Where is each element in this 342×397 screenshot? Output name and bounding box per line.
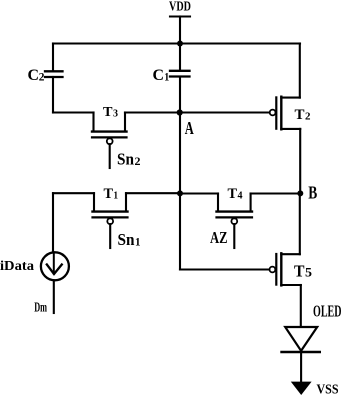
wire T5 gate horizontal (180, 268, 270, 270)
svg-text:1: 1 (135, 234, 141, 248)
label T1 (104, 186, 119, 202)
label T4 (228, 186, 244, 202)
svg-text:Dm: Dm (34, 301, 47, 316)
node junction center row (177, 190, 183, 196)
svg-text:VSS: VSS (317, 383, 339, 397)
label C2 (28, 67, 45, 84)
svg-text:1: 1 (114, 190, 119, 201)
svg-text:T: T (295, 107, 305, 123)
node A junction (177, 109, 183, 115)
wire top rail (53, 42, 300, 44)
svg-text:T: T (103, 105, 113, 120)
node junction VDD-rail (177, 41, 183, 47)
transistor T3 (92, 113, 127, 169)
transistor T5 (270, 194, 301, 327)
wire left-to-T3 (53, 111, 94, 113)
svg-text:2: 2 (305, 111, 311, 123)
wire VDD stub (179, 17, 181, 44)
capacitor C1 (170, 71, 190, 77)
wire center-to-T4 (180, 192, 218, 194)
wire center vertical lower (179, 194, 181, 270)
node B junction (297, 190, 303, 196)
svg-text:AZ: AZ (210, 228, 228, 247)
svg-text:iData: iData (0, 259, 34, 274)
svg-text:2: 2 (135, 154, 141, 168)
svg-text:OLED: OLED (313, 301, 342, 320)
label C1 (153, 67, 170, 84)
svg-text:A: A (185, 118, 194, 138)
wire center vertical upper (179, 44, 181, 71)
wire T3-to-T2gate (node A row) (125, 111, 270, 113)
wire left vertical to current source (52, 193, 54, 251)
svg-text:2: 2 (39, 71, 45, 83)
diode OLED (282, 327, 320, 352)
transistor T1 (93, 193, 128, 248)
wire T4-to-B (251, 192, 301, 194)
transistor T4 (217, 194, 253, 249)
svg-text:Sn: Sn (118, 230, 135, 249)
wire T1 left horizontal (53, 192, 94, 194)
transistor T2 (270, 44, 301, 194)
svg-text:C: C (28, 67, 40, 84)
wire center vertical mid (179, 77, 181, 194)
label T5 (294, 261, 313, 280)
wire left branch upper (52, 44, 54, 71)
svg-text:1: 1 (164, 71, 169, 83)
wire OLED-to-VSS (300, 352, 302, 382)
VSS arrow (291, 382, 312, 395)
svg-text:Sn: Sn (117, 149, 134, 168)
VDD power bar (170, 15, 190, 17)
svg-text:5: 5 (305, 265, 313, 280)
svg-text:T: T (294, 261, 305, 280)
label Sn1 (118, 230, 141, 249)
wire T1-to-center (126, 192, 180, 194)
current source iData (41, 252, 69, 280)
label Sn2 (117, 149, 141, 168)
wire left branch lower (52, 77, 54, 113)
svg-text:4: 4 (238, 190, 244, 201)
svg-text:T: T (228, 186, 238, 202)
label T2 (295, 107, 312, 123)
capacitor C2 (45, 71, 63, 77)
svg-text:VDD: VDD (169, 0, 191, 15)
svg-text:T: T (104, 186, 114, 202)
svg-text:B: B (308, 183, 317, 203)
svg-text:C: C (153, 67, 165, 84)
label T3 (103, 105, 118, 120)
wire below current source (53, 280, 55, 313)
svg-text:3: 3 (113, 109, 118, 120)
